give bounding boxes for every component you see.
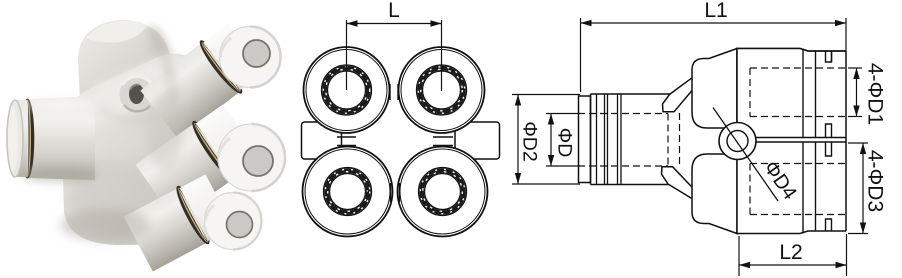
bottom port neck <box>692 154 737 234</box>
SIDE VIEW <box>512 0 887 276</box>
PHOTO <box>7 20 285 273</box>
top port neck <box>692 49 737 129</box>
bottom port bore dashed <box>750 164 845 215</box>
phiD4 circle <box>719 123 756 160</box>
ports meeting lines <box>750 138 846 143</box>
dimension phiD <box>546 114 580 167</box>
FRONT VIEW <box>302 0 500 236</box>
bottom port body <box>737 142 846 234</box>
photo left stem <box>7 96 95 180</box>
photo bottom-right port <box>123 172 262 273</box>
dimension L2 <box>739 234 847 276</box>
svg-text:L1: L1 <box>704 0 727 22</box>
phiD4 leader <box>713 108 778 202</box>
right tab <box>455 122 500 159</box>
port circle BR <box>398 147 488 237</box>
photo top-right port <box>139 21 281 142</box>
top port collar <box>803 49 832 138</box>
bore dashed stem <box>578 113 680 166</box>
photo soft shading <box>22 28 183 241</box>
port circle BL <box>303 147 393 237</box>
stem collet <box>579 96 591 183</box>
left tab <box>302 122 342 159</box>
connector top pair <box>390 84 398 100</box>
photo mounting ear <box>120 76 155 111</box>
photo back-left top port elbow <box>78 20 174 109</box>
dimension phiD2 <box>512 95 580 185</box>
connector left pair <box>337 137 356 146</box>
port circle TL <box>304 47 390 133</box>
arm bottom <box>662 167 699 200</box>
svg-text:L: L <box>388 0 400 22</box>
ports right face <box>845 51 847 231</box>
stem body <box>591 94 671 185</box>
svg-text:L2: L2 <box>779 241 802 264</box>
dimension L <box>347 20 442 91</box>
photo main body <box>62 54 214 245</box>
bottom port collar <box>803 142 832 234</box>
dimension 4-phiD3 <box>848 143 868 234</box>
connector right pair <box>433 137 453 146</box>
top port body <box>737 49 846 138</box>
svg-text:4-ΦD3: 4-ΦD3 <box>864 150 887 212</box>
dimension L1 <box>581 18 847 92</box>
svg-text:ΦD: ΦD <box>554 128 576 158</box>
arm top <box>663 76 700 112</box>
svg-text:4-ΦD1: 4-ΦD1 <box>864 63 887 125</box>
dimension 4-phiD1 <box>848 68 862 117</box>
port circle TR <box>399 47 485 133</box>
svg-text:ΦD2: ΦD2 <box>519 121 541 162</box>
connector bottom pair <box>391 183 400 202</box>
photo mid-right port <box>134 102 285 223</box>
stem rings <box>597 94 622 185</box>
top port bore dashed <box>750 68 845 117</box>
